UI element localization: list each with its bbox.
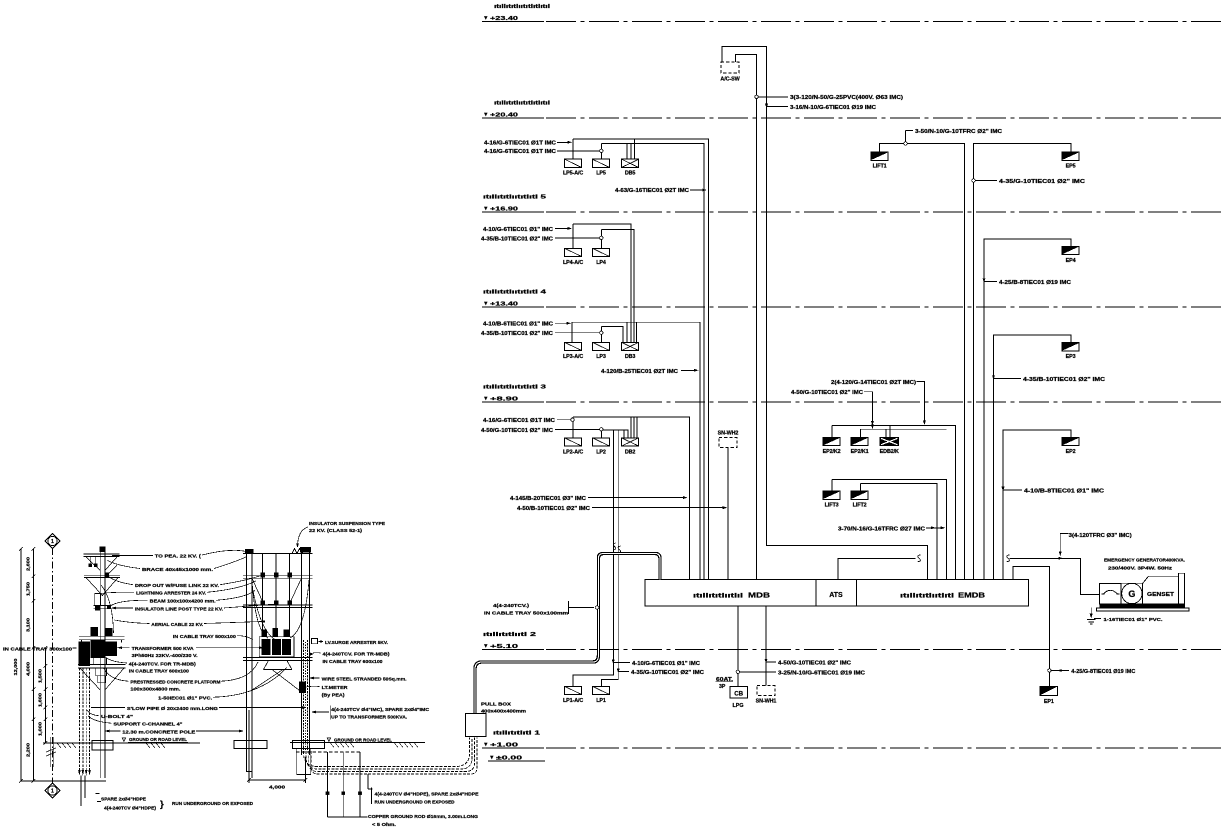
svg-text:4(4-240TCV. FOR TR-MDB): 4(4-240TCV. FOR TR-MDB) [323, 651, 390, 657]
wire drop LP3 [600, 327, 602, 343]
svg-text:LP4-A/C: LP4-A/C [563, 260, 583, 266]
wire stubs DB5 [626, 144, 628, 160]
pole top crossarm [84, 553, 120, 555]
svg-text:400x400x400mm: 400x400x400mm [481, 709, 526, 715]
svg-text:ıtıllıtıtlıtl 1: ıtıllıtıtlıtl 1 [493, 731, 540, 737]
suspension insulators on arm [89, 556, 91, 563]
underground duct run to pull box [304, 738, 470, 767]
svg-text:DB5: DB5 [625, 171, 636, 177]
cable label 4-35/G-10TIEC01 feeder LP1 [617, 668, 620, 673]
dimension 4000 between legs [248, 710, 250, 783]
svg-text:G: G [1128, 589, 1135, 599]
svg-text:4(4-240TCV Ø4"IMC), SPARE 2xØ4: 4(4-240TCV Ø4"IMC), SPARE 2xØ4"IMC [331, 707, 430, 713]
lift feeder panel LIFT2 [851, 491, 868, 499]
svg-text:ıtıllıtıtlııtlıtl: ıtıllıtıtlııtlıtl [900, 593, 954, 600]
generator breaker box [1100, 583, 1121, 604]
top beam [243, 553, 313, 555]
svg-text:GENSET: GENSET [1147, 592, 1174, 598]
svg-text:LP2: LP2 [596, 449, 606, 455]
svg-text:LP1-A/C: LP1-A/C [563, 698, 583, 704]
wire drop EP2/K1 [860, 429, 862, 437]
svg-text:LP5: LP5 [596, 171, 606, 177]
platform (front) [243, 657, 313, 659]
conduit risers below platform [78, 668, 80, 774]
footing piers below pads [247, 749, 253, 772]
svg-text:BRACE 40x45x1000 mm.: BRACE 40x45x1000 mm. [142, 567, 213, 573]
wire bus LP4 group [573, 224, 631, 342]
svg-text:LT.METER: LT.METER [322, 685, 349, 691]
svg-text:4-35/B-10TIEC01 Ø2" IMC: 4-35/B-10TIEC01 Ø2" IMC [481, 331, 553, 337]
svg-text:1-50IEC01 Ø1" PVC.: 1-50IEC01 Ø1" PVC. [158, 696, 212, 702]
pole second crossarm [84, 574, 120, 576]
svg-text:PRESTRESSED CONCRETE PLATFORM: PRESTRESSED CONCRETE PLATFORM [130, 680, 220, 686]
conductor drops between legs [262, 554, 264, 637]
svg-text:IN CABLE TRAY 600x100: IN CABLE TRAY 600x100 [323, 659, 383, 665]
diagonal braces [252, 578, 264, 605]
svg-text:▼: ▼ [483, 396, 489, 402]
svg-text:ıtıllıtıtlııtıtlıtl 5: ıtıllıtıtlııtıtlıtl 5 [483, 195, 546, 201]
emergency panel EP2/K1 [851, 437, 868, 445]
panel LP1 [592, 686, 609, 694]
cable label 4-50/G-10TIEC01 [765, 659, 768, 664]
panel LP5-A/C [565, 159, 582, 167]
svg-text:1: 1 [51, 539, 54, 545]
dimension chain overall 12000 [20, 549, 22, 781]
floor level line +8.90 [482, 385, 1223, 403]
svg-text:3,100: 3,100 [26, 617, 31, 632]
right structure pole legs [246, 550, 248, 748]
svg-text:2,200: 2,200 [26, 742, 31, 757]
emergency panel EP2/K2 [823, 437, 840, 445]
wire drop EP2/K2 [831, 426, 833, 438]
svg-text:BEAM 100x100x4200 mm.: BEAM 100x100x4200 mm. [150, 599, 216, 605]
svg-text:EP1: EP1 [1044, 699, 1054, 705]
svg-text:U-BOLT 4": U-BOLT 4" [101, 714, 133, 720]
svg-text:LP1: LP1 [596, 698, 606, 704]
svg-text:3P: 3P [719, 684, 726, 690]
svg-text:4-35/G-10TIEC01 Ø2" IMC: 4-35/G-10TIEC01 Ø2" IMC [999, 179, 1086, 185]
panel LP3 [592, 342, 609, 350]
panel LP4 [592, 248, 609, 256]
svg-text:100x300x4800 mm.: 100x300x4800 mm. [130, 687, 180, 693]
svg-text:SPARE 2xØ4"HDPE: SPARE 2xØ4"HDPE [101, 797, 147, 803]
wire MDB to LPG breaker [737, 606, 739, 687]
svg-text:ıtıllıtıtlııtıtlıtl 3: ıtıllıtıtlııtıtlıtl 3 [483, 385, 546, 391]
svg-text:(By PEA): (By PEA) [322, 692, 345, 698]
svg-text:LIGHTNING ARRESTER 24 KV.: LIGHTNING ARRESTER 24 KV. [136, 591, 206, 597]
wire drop LIFT2 [860, 483, 862, 491]
concrete pole (side view) [99, 552, 101, 778]
wire bus feeder DB3 group [572, 322, 700, 580]
wire riser LIFT3 [832, 479, 947, 579]
concrete platform [78, 664, 126, 666]
emergency panel EP2 [1062, 437, 1079, 445]
svg-text:▼: ▼ [483, 112, 489, 118]
ground line left [43, 742, 200, 744]
wire A/C-SW riser from MDB [736, 55, 757, 580]
main distribution board MDB [645, 580, 816, 607]
svg-text:INSULATOR LINE POST TYPE 22 KV: INSULATOR LINE POST TYPE 22 KV. [135, 606, 223, 612]
svg-text:EP2/K2: EP2/K2 [823, 449, 841, 455]
cable label 4-25/G-8TIEC01 EP1 [1048, 669, 1051, 672]
callout HDPE duct run underground right [367, 774, 369, 789]
svg-text:CB: CB [734, 690, 743, 697]
svg-text:SN-WH2: SN-WH2 [718, 430, 739, 436]
svg-text:4-16/G-6TIEC01 Ø1T IMC: 4-16/G-6TIEC01 Ø1T IMC [483, 418, 555, 424]
svg-text:COPPER GROUND ROD Ø16mm, 3.00m: COPPER GROUND ROD Ø16mm, 3.00m.LONG [368, 814, 478, 820]
svg-text:ıtıllıtıtlııtl 2: ıtıllıtıtlııtl 2 [483, 632, 536, 638]
transformer 500 kVA (side view) bushings [91, 628, 98, 637]
panel LP2-A/C [565, 438, 582, 446]
wire drop LP2 [600, 430, 602, 438]
svg-text:EP4: EP4 [1066, 258, 1076, 264]
wire SN-WH2 riser [727, 448, 729, 581]
cable label 1-16TIEC01 ground [1094, 618, 1101, 620]
panel LP5 [592, 159, 609, 167]
svg-text:ATS: ATS [829, 592, 843, 599]
svg-text:ıtıllıtıtlııtlıl: ıtıllıtıtlııtlıl [693, 593, 743, 600]
spare conduit tails [80, 776, 82, 807]
wire stubs EDB2/K [885, 429, 887, 437]
pull box 400x400x400 [466, 714, 487, 737]
aerial cable drop [101, 585, 114, 633]
platform supports [264, 661, 269, 670]
svg-text:1,750: 1,750 [26, 581, 31, 596]
floor level line +1.00 [482, 731, 1223, 749]
wire EMDB to EP1 [1013, 567, 1049, 687]
svg-text:IN CABLE TRAY 500x100: IN CABLE TRAY 500x100 [173, 634, 236, 640]
svg-text:3Ph50Hz 22KV.-400/230 V.: 3Ph50Hz 22KV.-400/230 V. [132, 653, 198, 659]
wire bus feeder DB5 group [573, 139, 709, 580]
genset enclosure [1143, 576, 1179, 604]
svg-text:}: } [160, 799, 164, 810]
svg-text:TO PEA. 22 KV. (: TO PEA. 22 KV. ( [155, 554, 201, 560]
platform support bracket [94, 658, 107, 665]
wire MDB to SN-WH1 [765, 606, 767, 686]
svg-text:4(4-240TCV.): 4(4-240TCV.) [493, 603, 529, 609]
svg-text:LIFT1: LIFT1 [873, 164, 887, 170]
footing pads [234, 741, 267, 749]
wire riser pair to LP1 group [612, 430, 614, 437]
distribution board DB2 [622, 438, 639, 446]
svg-text:230/400V. 3P4W. 50Hz: 230/400V. 3P4W. 50Hz [1108, 566, 1173, 572]
svg-text:1-16TIEC01 Ø1" PVC.: 1-16TIEC01 Ø1" PVC. [1104, 617, 1163, 623]
dimension chain platform heights [45, 648, 47, 743]
svg-text:▼: ▼ [483, 742, 489, 748]
floor level line +13.40 [482, 290, 1223, 308]
wire EP2/K inner bus [861, 428, 947, 430]
emergency panel EP1 [1040, 686, 1058, 695]
svg-text:S'LOW PIPE Ø 20x2400 mm.LONG: S'LOW PIPE Ø 20x2400 mm.LONG [127, 706, 218, 712]
svg-text:4-50/G-10TIEC01 Ø2" IMC: 4-50/G-10TIEC01 Ø2" IMC [778, 661, 851, 667]
wire drop LP5 [600, 144, 602, 160]
svg-text:4-50/B-10TIEC01 Ø2" IMC: 4-50/B-10TIEC01 Ø2" IMC [517, 506, 590, 512]
pole footing pad [92, 741, 113, 751]
wire break marks on LP1 riser pair [613, 543, 616, 550]
genset base plate [1097, 608, 1190, 611]
svg-text:INSULATOR SUSPENSION TYPE: INSULATOR SUSPENSION TYPE [309, 521, 386, 527]
svg-text:SUPPORT C-CHANNEL 4": SUPPORT C-CHANNEL 4" [113, 722, 182, 728]
svg-text:WIRE STEEL STRANDED 50Sq.mm.: WIRE STEEL STRANDED 50Sq.mm. [322, 676, 407, 682]
svg-text:4-10/G-6TIEC01 Ø1" IMC: 4-10/G-6TIEC01 Ø1" IMC [632, 661, 700, 667]
wire riser EP5 [974, 144, 1072, 580]
transformer body (side view) [79, 642, 90, 666]
wire stubs DB3 [626, 322, 628, 342]
svg-text:4(4-240TCV. FOR TR-MDB): 4(4-240TCV. FOR TR-MDB) [129, 661, 196, 667]
svg-text:RUN UNDERGROUND OR EXPOSED: RUN UNDERGROUND OR EXPOSED [172, 801, 254, 807]
svg-text:1: 1 [51, 789, 54, 795]
insulator suspension coil on top [292, 549, 305, 554]
disconnect switch A/C-SW [721, 62, 739, 73]
svg-text:4-50/G-10TIEC01 Ø2" IMC: 4-50/G-10TIEC01 Ø2" IMC [791, 390, 863, 396]
svg-text:▼: ▼ [483, 644, 489, 650]
watthour meter SN-WH2 [719, 438, 737, 448]
generator G circle [1121, 583, 1143, 604]
svg-text:▼: ▼ [483, 16, 489, 22]
svg-text:DB3: DB3 [625, 354, 636, 360]
svg-text:EMERGENCY GENERATOR400KVA.: EMERGENCY GENERATOR400KVA. [1104, 558, 1185, 564]
svg-text:3(3-120/N-50/G-25PVC(400V. Ø63: 3(3-120/N-50/G-25PVC(400V. Ø63 IMC) [790, 95, 903, 101]
svg-text:IN CABLE TRAY 300x100: IN CABLE TRAY 300x100 [3, 647, 73, 652]
third beam [243, 604, 313, 606]
svg-text:1,000: 1,000 [38, 721, 43, 736]
upper cable tray 300x100 on pole [79, 635, 125, 637]
cable label 3-16/N-10/G-6TIEC01 [765, 104, 768, 109]
svg-text:4(4-240TCV Ø4"HDPE): 4(4-240TCV Ø4"HDPE) [104, 806, 156, 812]
cable label 3-50/N-10/G-10TFRC lift riser [904, 142, 907, 145]
panel LP2 [592, 438, 609, 446]
svg-text:4(4-240TCV Ø4"HDPE), SPARE 2xØ: 4(4-240TCV Ø4"HDPE), SPARE 2xØ4"HDPE [375, 792, 480, 798]
wire riser LIFT2 [861, 483, 937, 579]
svg-text:▽: ▽ [121, 737, 126, 743]
panel LP1-A/C [565, 686, 582, 694]
svg-text:LP5-A/C: LP5-A/C [563, 171, 583, 177]
emergency panel EP3 [1062, 343, 1079, 351]
callout 4(4-240TCV IMC) up to transformer [329, 706, 331, 720]
wire stubs DB2 [623, 430, 625, 438]
automatic transfer switch ATS [816, 580, 857, 607]
cable label 3(3-120/N-50/G-25PVC 400V feeder [755, 95, 758, 98]
svg-text:3-50/N-10/G-10TFRC Ø2" IMC: 3-50/N-10/G-10TFRC Ø2" IMC [915, 129, 1002, 135]
svg-text:4-25/B-8TIEC01 Ø19 IMC: 4-25/B-8TIEC01 Ø19 IMC [999, 280, 1071, 286]
svg-text:PULL BOX: PULL BOX [481, 702, 512, 708]
cable label 3(4-120TFRC) generator feeder [1060, 534, 1068, 554]
panel LP3-A/C [565, 342, 582, 350]
drop out fuse on pole [105, 573, 108, 578]
wire drop LP2-A/C [572, 417, 574, 438]
svg-text:3(4-120TFRC Ø3" IMC): 3(4-120TFRC Ø3" IMC) [1069, 533, 1132, 539]
beam with line post insulator [94, 604, 111, 606]
transformer (front view) bushings [262, 630, 267, 637]
svg-text:EDB2/K: EDB2/K [880, 449, 899, 455]
dimension chain pole heights [33, 549, 35, 781]
svg-text:A/C-SW: A/C-SW [720, 77, 740, 83]
svg-text:IN CABLE TRAY 600x100: IN CABLE TRAY 600x100 [129, 668, 189, 674]
svg-text:LIFT2: LIFT2 [853, 503, 867, 509]
callout SPARE HDPE (left pole) [96, 793, 100, 795]
genset base (black) [1100, 604, 1185, 607]
distribution board DB5 [622, 159, 639, 167]
svg-text:ıtıllıtıtlııtıtlıtlıtıl: ıtıllıtıtlııtıtlıtlıtıl [494, 101, 551, 107]
svg-text:LIFT3: LIFT3 [825, 503, 839, 509]
svg-text:3-16/N-10/G-6TIEC01 Ø19 IMC: 3-16/N-10/G-6TIEC01 Ø19 IMC [790, 105, 876, 111]
cable label 3-25/N-10/G-6TIEC01 [736, 670, 739, 673]
cable label 4-10/G-6TIEC01 feeder LP1-A/C [612, 659, 615, 664]
svg-text:EP2/K1: EP2/K1 [851, 449, 869, 455]
cable label 4-25/B-8TIEC01 EP4 [983, 278, 986, 283]
emergency panel EP4 [1062, 246, 1079, 254]
svg-text:4-120/B-25TIEC01 Ø2T IMC: 4-120/B-25TIEC01 Ø2T IMC [601, 369, 678, 375]
wire riser LIFT1 [880, 144, 965, 580]
LV surge arrester component [312, 639, 318, 644]
svg-text:DROP OUT W/FUSE LINK 22 KV.: DROP OUT W/FUSE LINK 22 KV. [135, 583, 219, 589]
svg-text:EMDB: EMDB [958, 591, 985, 600]
main incoming feeder cable (thick) pull box to MDB [475, 554, 660, 714]
svg-text:TRANSFORMER 500 KVA: TRANSFORMER 500 KVA [132, 646, 195, 652]
svg-text:4-145/B-20TIEC01 Ø3" IMC: 4-145/B-20TIEC01 Ø3" IMC [510, 496, 586, 502]
wire drop LP5-A/C [572, 139, 574, 159]
svg-text:4-10/B-8TIEC01 Ø1" IMC: 4-10/B-8TIEC01 Ø1" IMC [1024, 488, 1105, 494]
svg-text:4-35/B-10TIEC01 Ø2" IMC: 4-35/B-10TIEC01 Ø2" IMC [1023, 377, 1106, 383]
LT meter box [300, 682, 306, 693]
svg-text:< 5 Ohm.: < 5 Ohm. [372, 822, 396, 828]
svg-text:EP3: EP3 [1066, 354, 1076, 360]
svg-text:4-63/G-16TIEC01 Ø2T IMC: 4-63/G-16TIEC01 Ø2T IMC [615, 188, 689, 194]
wire bus feeder DB2 group [573, 417, 690, 580]
svg-text:LP4: LP4 [596, 260, 606, 266]
svg-text:EP2: EP2 [1066, 449, 1076, 455]
svg-text:ıtıllıtıtlııtıtlıtlıtıl: ıtıllıtıtlııtıtlıtlıtıl [494, 4, 551, 10]
section line 1-1 [52, 548, 54, 783]
svg-text:ıtıllıtıtlııtıtlıtl 4: ıtıllıtıtlııtıtlıtl 4 [483, 290, 546, 296]
svg-text:LP2-A/C: LP2-A/C [563, 449, 583, 455]
svg-text:4,000: 4,000 [269, 785, 286, 790]
wire drop LIFT3 [831, 479, 833, 491]
svg-text:4,000: 4,000 [26, 661, 31, 676]
svg-text:4-16/G-6TIEC01 Ø1T IMC: 4-16/G-6TIEC01 Ø1T IMC [484, 149, 556, 155]
svg-text:RUN UNDERGROUND OR EXPOSED: RUN UNDERGROUND OR EXPOSED [375, 800, 456, 806]
svg-text:▼: ▼ [483, 206, 489, 212]
svg-text:1,500: 1,500 [38, 668, 43, 683]
wire riser EP3 [994, 335, 1072, 580]
svg-text:4-16/G-6TIEC01 Ø1T IMC: 4-16/G-6TIEC01 Ø1T IMC [484, 141, 556, 147]
svg-text:4-10/G-6TIEC01 Ø1" IMC: 4-10/G-6TIEC01 Ø1" IMC [483, 227, 553, 233]
cable label 4-35/B-10TIEC01 EP3 [992, 375, 995, 380]
floor level line +5.10 [482, 632, 1223, 650]
floor level line +20.40 [482, 101, 1223, 119]
ground rods with clamps [296, 751, 362, 753]
wire drop LP4 [600, 230, 602, 249]
svg-text:SN-WH1: SN-WH1 [756, 698, 777, 704]
wire riser EP4 [984, 239, 1071, 580]
svg-text:▼: ▼ [483, 301, 489, 307]
emergency panel EP5 [1062, 152, 1079, 160]
floor level line +16.90 [482, 195, 1223, 213]
pole base line at dimension chain [21, 780, 106, 782]
svg-text:LPG: LPG [732, 703, 743, 709]
svg-text:12,000: 12,000 [13, 658, 18, 676]
emergency main distribution board EMDB [857, 580, 1029, 607]
svg-text:4-35/G-10TIEC01 Ø2" IMC: 4-35/G-10TIEC01 Ø2" IMC [631, 670, 704, 676]
svg-text:3-70/N-16/G-16TFRC Ø27 IMC: 3-70/N-16/G-16TFRC Ø27 IMC [838, 526, 925, 532]
distribution board DB3 [622, 342, 639, 350]
wire ATS to generator [838, 558, 916, 579]
lightning arrester [95, 593, 101, 605]
svg-text:4-25/G-8TIEC01 Ø19 IMC: 4-25/G-8TIEC01 Ø19 IMC [1071, 669, 1135, 675]
wire A/C-SW riser from EMDB [722, 47, 928, 580]
cable label 4-10/B-8TIEC01 EP2 [1002, 487, 1005, 492]
svg-text:UP TO TRANSFORMER 500KVA.: UP TO TRANSFORMER 500KVA. [331, 714, 407, 720]
wire drop LP3-A/C [571, 322, 573, 342]
transformer body (front view) [259, 637, 294, 657]
svg-text:2,600: 2,600 [26, 556, 31, 571]
svg-text:EP5: EP5 [1066, 164, 1076, 170]
svg-text:AERIAL CABLE 22 KV.: AERIAL CABLE 22 KV. [151, 622, 203, 628]
svg-text:22 KV. (CLASS 52-1): 22 KV. (CLASS 52-1) [309, 528, 362, 534]
svg-text:4-50/G-10TIEC01 Ø2" IMC: 4-50/G-10TIEC01 Ø2" IMC [481, 428, 553, 434]
svg-text:3-25/N-10/G-6TIEC01 Ø19 IMC: 3-25/N-10/G-6TIEC01 Ø19 IMC [778, 670, 865, 676]
svg-text:12.30 m.CONCRETE POLE: 12.30 m.CONCRETE POLE [122, 729, 196, 735]
svg-text:1,600: 1,600 [38, 692, 43, 707]
generator ground conductor [1090, 608, 1092, 617]
svg-text:4-35/B-10TIEC01 Ø2" IMC: 4-35/B-10TIEC01 Ø2" IMC [481, 236, 553, 242]
cable label 4-35/G-10TIEC01 EP5 [972, 179, 975, 182]
floor level line +23.40 [482, 4, 1223, 22]
pipe clamps on pole [96, 668, 107, 676]
emergency distribution board EDB2/K [880, 437, 899, 445]
datum level ±0.00 [488, 755, 545, 761]
ground break symbol [49, 737, 51, 767]
svg-text:4-10/B-6TIEC01 Ø1" IMC: 4-10/B-6TIEC01 Ø1" IMC [483, 322, 553, 328]
panel LP4-A/C [565, 248, 582, 256]
wire riser EP2 [1003, 430, 1071, 580]
svg-text:IN CABLE TRAY 500x100mm: IN CABLE TRAY 500x100mm [484, 611, 568, 617]
wire riser EP2/K bus [832, 426, 956, 580]
ground line right [290, 741, 425, 743]
lift feeder panel LIFT1 [871, 152, 888, 160]
wire drop LP4-A/C [572, 224, 574, 248]
watthour meter SN-WH1 [757, 686, 775, 696]
svg-text:DB2: DB2 [625, 449, 636, 455]
svg-text:LP3: LP3 [596, 354, 606, 360]
svg-text:2(4-120/G-14TIEC01 Ø2T IMC): 2(4-120/G-14TIEC01 Ø2T IMC) [831, 380, 916, 386]
conduit end arrows underground [78, 770, 81, 776]
svg-text:LV.SURGE ARRESTER 5KV.: LV.SURGE ARRESTER 5KV. [325, 640, 388, 646]
genset exhaust stack [1178, 573, 1184, 604]
svg-text:LP3-A/C: LP3-A/C [563, 354, 583, 360]
second beam [243, 575, 313, 577]
svg-text:MDB: MDB [748, 591, 770, 600]
cable tray down right leg [303, 640, 305, 750]
aerial cable sag curves [252, 580, 268, 638]
lift feeder panel LIFT3 [823, 491, 840, 499]
